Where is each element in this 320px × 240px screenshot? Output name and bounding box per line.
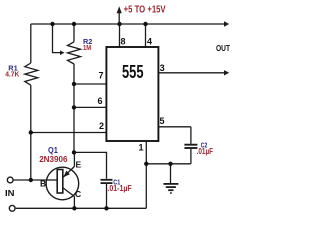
arrow pin3 out	[224, 70, 229, 75]
svg-text:7: 7	[99, 71, 104, 81]
wire pin 4 (rail to chip)	[145, 24, 147, 47]
wire pin 3 output	[158, 72, 225, 74]
svg-text:5: 5	[160, 116, 165, 126]
node pin7-R2	[72, 82, 76, 86]
svg-text:1M: 1M	[83, 43, 91, 52]
wire emitter node (to C1)	[74, 152, 107, 178]
wire pin 5	[158, 126, 191, 128]
arrow +V supply	[117, 6, 122, 24]
wire pin 7	[74, 83, 106, 85]
node junction dots	[29, 22, 173, 211]
terminal IN bottom	[9, 205, 15, 211]
svg-text:IN: IN	[5, 188, 15, 198]
node pin1-gnd	[144, 162, 148, 166]
svg-text:4: 4	[147, 37, 152, 47]
svg-text:6: 6	[98, 96, 103, 106]
arrow R2 wiper	[60, 50, 65, 55]
svg-text:8: 8	[121, 37, 126, 47]
wire emitter vertical	[73, 152, 75, 166]
svg-text:3: 3	[160, 63, 165, 73]
capacitor C2	[190, 127, 192, 144]
node emitter-C1	[72, 150, 76, 154]
svg-text:E: E	[76, 160, 82, 170]
resistor R1	[25, 63, 38, 85]
svg-text:2: 2	[99, 121, 104, 131]
svg-text:1: 1	[139, 143, 144, 153]
svg-text:C: C	[75, 189, 81, 199]
wire R2 top (rail to R2)	[73, 24, 75, 42]
wire left vertical upper (rail to R1)	[30, 24, 32, 63]
wire R2 wiper from rail	[53, 24, 61, 53]
resistor R2	[68, 42, 81, 64]
node rail-pin4	[143, 22, 147, 26]
svg-text:+5 TO +15V: +5 TO +15V	[124, 4, 166, 15]
node collector-rail	[72, 206, 76, 210]
IC U1 555 timer	[106, 47, 158, 141]
wire top rail	[31, 23, 225, 25]
wire pin 6	[74, 106, 106, 108]
svg-text:.01µF: .01µF	[197, 147, 214, 156]
node rail-R2wiper	[50, 22, 54, 26]
transistor Q1	[46, 167, 79, 200]
wire left vertical lower (R1 to base node)	[30, 85, 32, 180]
terminal IN top	[7, 177, 13, 183]
node pin2-R1	[29, 130, 33, 134]
node pin6-R2	[72, 105, 76, 109]
wire pin 1 vertical	[145, 141, 147, 208]
node rail-R2	[72, 22, 76, 26]
node rail-pin8	[117, 22, 121, 26]
svg-text:555: 555	[122, 62, 144, 82]
wire pin 2	[31, 132, 107, 134]
node base-R1	[29, 178, 33, 182]
wire R2 bottom vertical (R2 to emitter node)	[73, 64, 75, 152]
svg-text:4.7K: 4.7K	[5, 70, 20, 79]
wire C1 bottom	[106, 184, 108, 208]
wire ground link (pin1 to C2)	[146, 163, 190, 165]
node C1-rail	[104, 206, 108, 210]
capacitor C1	[101, 179, 113, 181]
ground	[170, 164, 172, 183]
arrow rail out	[224, 21, 229, 26]
wire bottom rail	[16, 207, 147, 209]
svg-text:B: B	[40, 178, 46, 188]
node gnd-tap	[168, 162, 172, 166]
wire base (IN to Q1)	[13, 179, 46, 181]
svg-text:OUT: OUT	[216, 43, 231, 53]
svg-text:.01-1µF: .01-1µF	[107, 184, 131, 193]
svg-text:2N3906: 2N3906	[39, 154, 67, 164]
wire pin 8 (rail to chip)	[119, 24, 121, 47]
wire collector vertical	[73, 197, 75, 209]
